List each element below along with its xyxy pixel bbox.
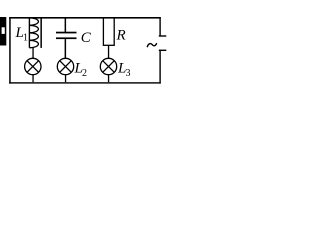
- svg-text:2: 2: [82, 68, 87, 79]
- wire right lower: [159, 50, 160, 84]
- capacitor plate bottom: [56, 37, 77, 39]
- resistor box R: [103, 18, 114, 46]
- svg-text:R: R: [116, 28, 126, 44]
- wire lamp3 to bottom: [108, 75, 109, 83]
- AC source tilde: [147, 43, 157, 47]
- inductor core line: [40, 18, 42, 48]
- wire left: [9, 17, 11, 84]
- wire top: [9, 17, 161, 19]
- AC terminal tick upper: [159, 35, 167, 36]
- core bar notch: [2, 27, 5, 34]
- wire lamp2 to bottom: [65, 75, 66, 83]
- capacitor stem lower: [65, 39, 67, 59]
- core bar: [0, 17, 6, 46]
- wire bottom: [9, 82, 161, 83]
- lamp L2: [57, 58, 73, 74]
- capacitor plate top: [56, 32, 77, 34]
- AC terminal tick lower: [159, 50, 167, 51]
- wire lamp1 to bottom: [32, 75, 33, 83]
- wire coil to lamp1: [32, 48, 33, 59]
- capacitor stem upper: [65, 18, 67, 32]
- svg-text:1: 1: [23, 33, 28, 44]
- lamp L1: [25, 58, 41, 74]
- inductor coil: [29, 18, 30, 48]
- svg-text:C: C: [81, 30, 92, 46]
- wire right upper: [159, 17, 160, 36]
- svg-text:3: 3: [126, 68, 131, 79]
- lamp L3: [100, 58, 116, 74]
- resistor stub lower: [108, 45, 109, 58]
